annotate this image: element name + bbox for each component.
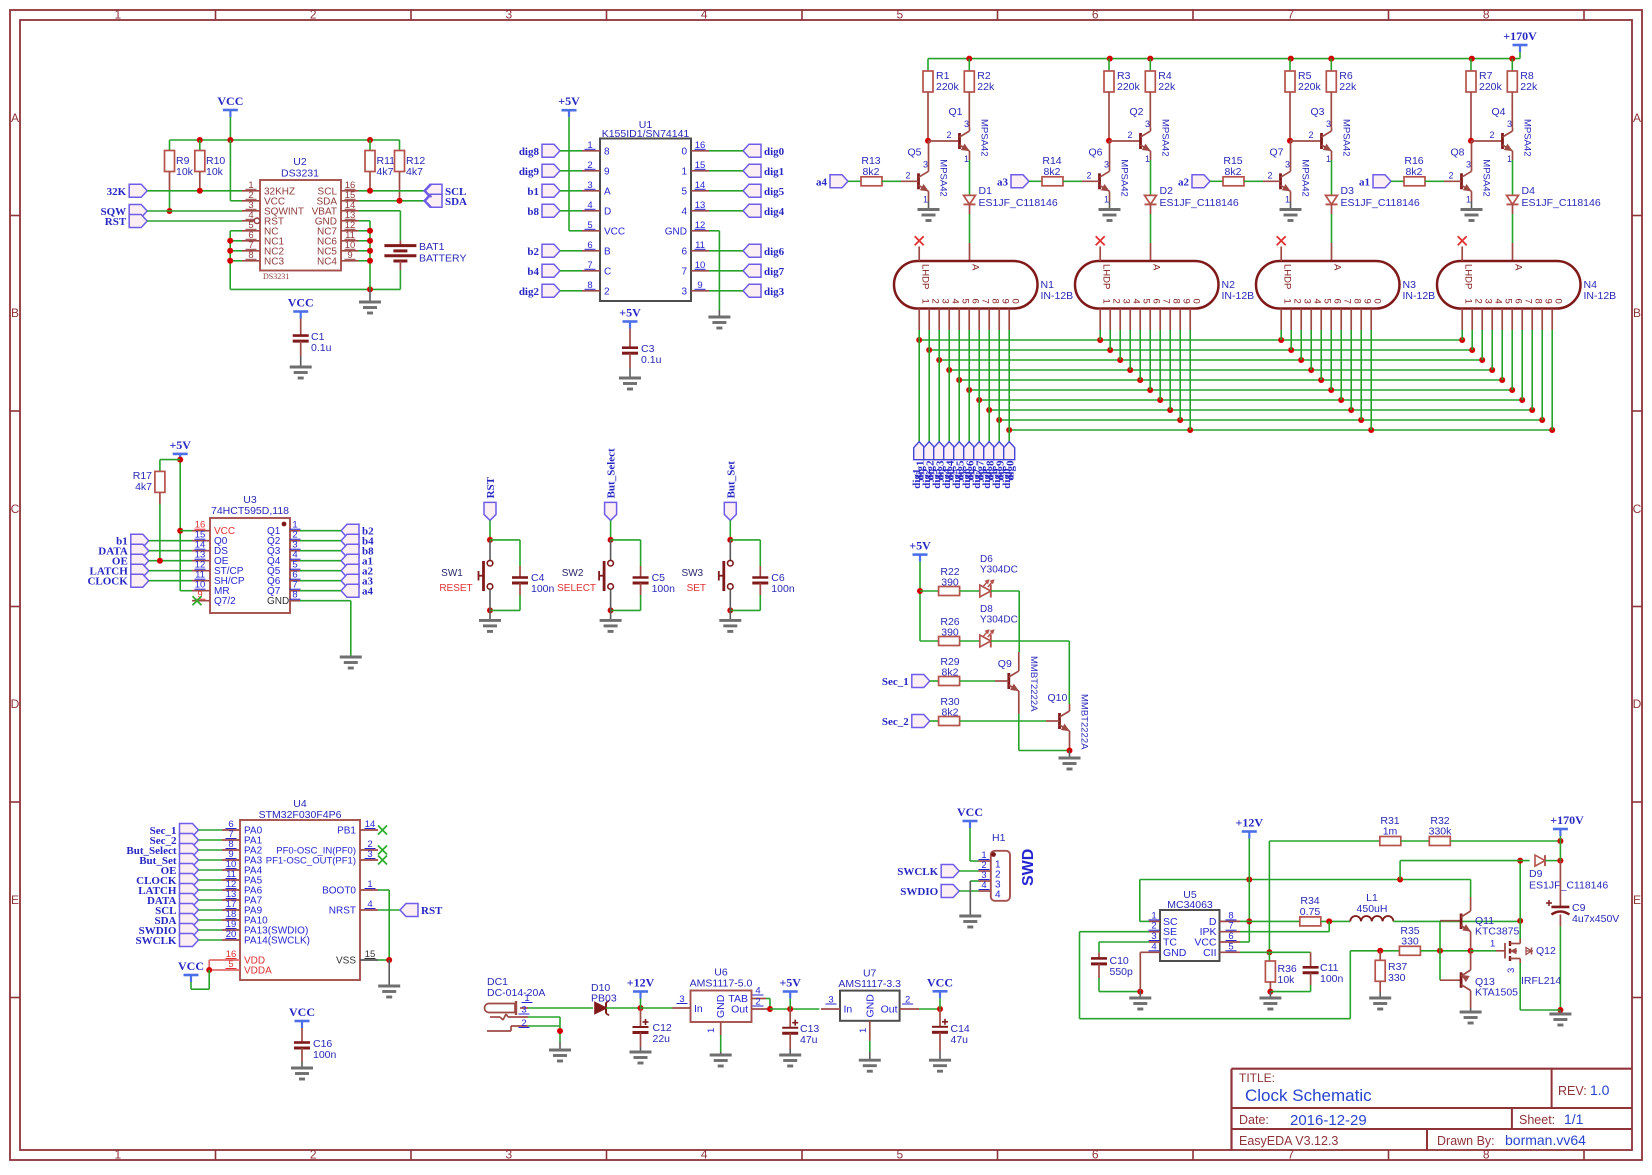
svg-text:6: 6	[681, 246, 687, 257]
svg-text:A: A	[1332, 264, 1343, 271]
svg-text:Q9: Q9	[998, 658, 1012, 670]
svg-text:+5V: +5V	[779, 976, 801, 990]
svg-text:Out: Out	[731, 1004, 748, 1016]
svg-text:A: A	[1151, 264, 1162, 271]
svg-text:4k7: 4k7	[135, 481, 152, 493]
svg-text:VCC: VCC	[604, 226, 625, 237]
svg-text:D8: D8	[980, 604, 993, 615]
svg-text:390: 390	[941, 577, 959, 589]
svg-text:dig7: dig7	[764, 266, 785, 278]
svg-text:a3: a3	[997, 176, 1009, 188]
svg-text:6: 6	[1513, 299, 1524, 304]
svg-text:VDDA: VDDA	[244, 966, 272, 977]
svg-text:0: 0	[1010, 299, 1021, 304]
svg-text:5: 5	[896, 1148, 903, 1162]
svg-text:MPSA42: MPSA42	[1481, 159, 1492, 197]
svg-text:47u: 47u	[800, 1034, 818, 1046]
svg-text:8: 8	[1171, 299, 1182, 304]
svg-text:9: 9	[1543, 299, 1554, 304]
svg-text:2: 2	[930, 299, 941, 304]
svg-text:32K: 32K	[107, 186, 127, 198]
svg-text:IN-12B: IN-12B	[1222, 290, 1255, 302]
svg-text:1: 1	[1285, 194, 1290, 204]
svg-text:BATTERY: BATTERY	[419, 253, 466, 265]
svg-text:3: 3	[1507, 119, 1512, 129]
svg-text:D4: D4	[1522, 185, 1536, 197]
svg-text:22u: 22u	[653, 1033, 671, 1045]
svg-text:8: 8	[604, 146, 610, 157]
svg-text:Q5: Q5	[908, 146, 922, 158]
svg-text:TITLE:: TITLE:	[1239, 1071, 1275, 1085]
svg-text:74HCT595D,118: 74HCT595D,118	[211, 505, 289, 517]
svg-text:1: 1	[706, 1028, 717, 1033]
svg-text:CLOCK: CLOCK	[87, 576, 128, 588]
svg-text:7: 7	[1342, 299, 1353, 304]
svg-text:Q3: Q3	[1311, 106, 1325, 118]
svg-text:VCC: VCC	[927, 975, 953, 989]
svg-text:7: 7	[681, 266, 687, 277]
svg-text:DS3231: DS3231	[263, 272, 289, 281]
svg-text:MPSA42: MPSA42	[1160, 119, 1171, 157]
svg-text:0.75: 0.75	[1300, 906, 1321, 918]
svg-text:SWCLK: SWCLK	[897, 866, 938, 878]
svg-text:1: 1	[1463, 299, 1474, 304]
svg-text:In: In	[694, 1003, 703, 1015]
svg-text:LHDP: LHDP	[920, 264, 931, 289]
svg-text:330k: 330k	[1429, 826, 1453, 838]
svg-text:0: 0	[1372, 299, 1383, 304]
svg-text:220k: 220k	[1479, 81, 1503, 93]
svg-text:1: 1	[964, 154, 969, 164]
svg-text:Q4: Q4	[1492, 106, 1506, 118]
svg-text:A: A	[11, 111, 19, 125]
svg-text:220k: 220k	[936, 81, 960, 93]
svg-text:3: 3	[1302, 299, 1313, 304]
svg-text:5: 5	[1322, 299, 1333, 304]
svg-text:C: C	[1633, 502, 1642, 516]
svg-text:NC4: NC4	[317, 256, 337, 267]
svg-text:D6: D6	[980, 554, 993, 565]
svg-text:A: A	[1633, 111, 1641, 125]
svg-text:6: 6	[1092, 8, 1099, 22]
svg-text:2: 2	[1128, 130, 1133, 140]
svg-text:7: 7	[980, 299, 991, 304]
svg-text:PA14(SWCLK): PA14(SWCLK)	[244, 936, 310, 947]
svg-text:6: 6	[1092, 1148, 1099, 1162]
svg-text:A: A	[970, 264, 981, 271]
svg-text:SWD: SWD	[1020, 849, 1037, 886]
svg-text:borman.vv64: borman.vv64	[1505, 1132, 1586, 1148]
svg-text:ES1JF_C118146: ES1JF_C118146	[979, 197, 1058, 209]
svg-text:NC3: NC3	[264, 256, 284, 267]
svg-text:RST: RST	[105, 216, 127, 228]
svg-text:0: 0	[1553, 299, 1564, 304]
svg-text:MMBT2222A: MMBT2222A	[1079, 694, 1090, 750]
svg-text:+5V: +5V	[909, 539, 931, 553]
svg-text:+5V: +5V	[558, 94, 580, 108]
svg-text:2: 2	[310, 1148, 317, 1162]
svg-text:1: 1	[1282, 299, 1293, 304]
svg-text:22k: 22k	[977, 81, 995, 93]
svg-text:ES1JF_C118146: ES1JF_C118146	[1522, 197, 1601, 209]
svg-text:MPSA42: MPSA42	[1341, 119, 1352, 157]
svg-text:U2: U2	[293, 156, 307, 168]
svg-text:2: 2	[1449, 170, 1454, 180]
svg-text:4: 4	[701, 8, 708, 22]
svg-text:8k2: 8k2	[1044, 166, 1061, 178]
svg-text:ES1JF_C118146: ES1JF_C118146	[1341, 197, 1420, 209]
svg-text:D: D	[1633, 697, 1642, 711]
svg-text:B: B	[11, 306, 19, 320]
svg-text:ES1JF_C118146: ES1JF_C118146	[1529, 880, 1608, 892]
svg-text:5: 5	[1141, 299, 1152, 304]
svg-text:+5V: +5V	[169, 438, 191, 452]
svg-text:1: 1	[923, 194, 928, 204]
svg-text:KTC3875: KTC3875	[1475, 926, 1520, 938]
svg-text:MC34063: MC34063	[1167, 899, 1213, 911]
svg-text:2: 2	[1490, 130, 1495, 140]
svg-text:8: 8	[990, 299, 1001, 304]
svg-text:22k: 22k	[1158, 81, 1176, 93]
svg-text:PB03: PB03	[591, 993, 617, 1005]
svg-text:3: 3	[1145, 119, 1150, 129]
svg-text:dig2: dig2	[519, 286, 540, 298]
svg-text:220k: 220k	[1117, 81, 1141, 93]
svg-text:GND: GND	[665, 226, 687, 237]
svg-text:10k: 10k	[206, 166, 224, 178]
svg-text:2: 2	[1473, 299, 1484, 304]
svg-text:b2: b2	[527, 246, 539, 258]
svg-text:Date:: Date:	[1239, 1113, 1269, 1127]
svg-text:PB1: PB1	[337, 826, 356, 837]
svg-text:5: 5	[1503, 299, 1514, 304]
svg-text:But_Set: But_Set	[725, 461, 737, 499]
svg-text:K155ID1/SN74141: K155ID1/SN74141	[602, 128, 690, 140]
svg-text:4: 4	[701, 1148, 708, 1162]
svg-text:3: 3	[1466, 159, 1471, 169]
svg-text:SW2: SW2	[562, 568, 584, 579]
svg-text:100n: 100n	[652, 583, 676, 595]
svg-text:C: C	[11, 502, 20, 516]
svg-text:GND: GND	[1163, 947, 1187, 959]
svg-text:220k: 220k	[1298, 81, 1322, 93]
svg-text:MPSA42: MPSA42	[979, 119, 990, 157]
svg-text:Q7/2: Q7/2	[214, 596, 236, 607]
svg-text:1: 1	[114, 1148, 121, 1162]
svg-text:1: 1	[1101, 299, 1112, 304]
svg-text:Sec_2: Sec_2	[882, 716, 909, 728]
svg-text:Y304DC: Y304DC	[980, 615, 1018, 626]
svg-text:1m: 1m	[1383, 826, 1398, 838]
svg-text:550p: 550p	[1110, 966, 1134, 978]
svg-text:3: 3	[1104, 159, 1109, 169]
svg-text:9: 9	[604, 166, 610, 177]
svg-text:SWDIO: SWDIO	[900, 886, 938, 898]
svg-text:B: B	[604, 246, 611, 257]
svg-text:MPSA42: MPSA42	[1119, 159, 1130, 197]
svg-text:Q1: Q1	[949, 106, 963, 118]
svg-text:2016-12-29: 2016-12-29	[1290, 1112, 1367, 1129]
svg-text:+170V: +170V	[1550, 813, 1584, 827]
svg-text:6: 6	[1151, 299, 1162, 304]
svg-text:H1: H1	[992, 832, 1006, 844]
svg-text:1: 1	[858, 1028, 869, 1033]
svg-text:Out: Out	[881, 1004, 898, 1016]
svg-text:IN-12B: IN-12B	[1403, 290, 1436, 302]
svg-text:VCC: VCC	[178, 959, 204, 973]
svg-text:D2: D2	[1160, 185, 1174, 197]
svg-text:But_Select: But_Select	[606, 448, 618, 498]
svg-text:1: 1	[681, 166, 687, 177]
svg-text:D: D	[604, 206, 611, 217]
svg-text:8: 8	[1483, 1148, 1490, 1162]
svg-text:MPSA42: MPSA42	[1522, 119, 1533, 157]
svg-text:10k: 10k	[176, 166, 194, 178]
svg-text:SW1: SW1	[441, 568, 463, 579]
svg-text:dig3: dig3	[764, 286, 785, 298]
svg-text:C: C	[604, 266, 611, 277]
svg-text:dig9: dig9	[519, 166, 540, 178]
svg-text:b1: b1	[527, 186, 539, 198]
svg-text:5: 5	[960, 299, 971, 304]
svg-text:D1: D1	[979, 185, 993, 197]
svg-text:8k2: 8k2	[1225, 166, 1242, 178]
svg-text:IRFL214: IRFL214	[1521, 975, 1561, 987]
svg-text:2: 2	[1111, 299, 1122, 304]
svg-text:In: In	[844, 1004, 853, 1016]
svg-text:8: 8	[1483, 8, 1490, 22]
svg-text:3: 3	[940, 299, 951, 304]
svg-text:AMS1117-5.0: AMS1117-5.0	[690, 978, 753, 990]
svg-text:KTA1505: KTA1505	[1475, 987, 1518, 999]
svg-text:E: E	[1633, 893, 1641, 907]
svg-text:2: 2	[947, 130, 952, 140]
svg-text:1: 1	[920, 299, 931, 304]
svg-text:2: 2	[604, 286, 610, 297]
svg-text:b4: b4	[527, 266, 539, 278]
svg-text:4: 4	[1493, 299, 1504, 304]
svg-text:a4: a4	[816, 176, 828, 188]
svg-text:Sec_1: Sec_1	[882, 676, 909, 688]
svg-text:3: 3	[505, 1148, 512, 1162]
svg-text:IN-12B: IN-12B	[1584, 290, 1617, 302]
svg-text:VCC: VCC	[289, 1005, 315, 1019]
svg-text:6: 6	[1332, 299, 1343, 304]
svg-text:a4: a4	[362, 586, 374, 598]
svg-text:330: 330	[1388, 972, 1406, 984]
svg-text:SELECT: SELECT	[557, 583, 596, 594]
svg-text:100n: 100n	[313, 1049, 337, 1061]
svg-text:AMS1117-3.3: AMS1117-3.3	[838, 978, 901, 990]
svg-text:Q10: Q10	[1048, 692, 1068, 704]
svg-text:3: 3	[505, 8, 512, 22]
svg-text:2: 2	[1087, 170, 1092, 180]
svg-text:SWCLK: SWCLK	[136, 935, 177, 947]
svg-text:1: 1	[114, 8, 121, 22]
svg-text:EasyEDA V3.12.3: EasyEDA V3.12.3	[1239, 1134, 1338, 1148]
svg-text:+12V: +12V	[1236, 816, 1264, 830]
svg-text:SW3: SW3	[681, 568, 703, 579]
svg-text:2: 2	[906, 170, 911, 180]
svg-text:4: 4	[681, 206, 687, 217]
svg-text:3: 3	[1326, 119, 1331, 129]
svg-text:+170V: +170V	[1503, 29, 1537, 43]
svg-text:SET: SET	[687, 583, 706, 594]
svg-text:A: A	[1513, 264, 1524, 271]
svg-text:10k: 10k	[1278, 974, 1296, 986]
svg-text:47u: 47u	[951, 1034, 969, 1046]
svg-text:5: 5	[896, 8, 903, 22]
svg-text:RST: RST	[421, 905, 443, 917]
svg-text:0: 0	[1191, 299, 1202, 304]
svg-text:1: 1	[1490, 939, 1495, 950]
svg-text:0.1u: 0.1u	[641, 354, 662, 366]
svg-text:0: 0	[681, 146, 687, 157]
svg-text:VSS: VSS	[336, 956, 356, 967]
svg-text:PF1-OSC_OUT(PF1): PF1-OSC_OUT(PF1)	[266, 856, 356, 867]
svg-text:7: 7	[1287, 8, 1294, 22]
svg-text:REV:: REV:	[1558, 1084, 1587, 1098]
svg-text:Q6: Q6	[1089, 146, 1103, 158]
svg-text:3: 3	[1285, 159, 1290, 169]
svg-text:2: 2	[1292, 299, 1303, 304]
svg-text:22k: 22k	[1520, 81, 1538, 93]
svg-text:dig8: dig8	[519, 146, 540, 158]
svg-text:Q2: Q2	[1130, 106, 1144, 118]
svg-text:SDA: SDA	[445, 196, 467, 208]
svg-text:Q12: Q12	[1536, 945, 1556, 957]
svg-text:9: 9	[1000, 299, 1011, 304]
svg-text:100n: 100n	[531, 583, 555, 595]
svg-text:Drawn By:: Drawn By:	[1437, 1134, 1495, 1148]
svg-text:100n: 100n	[771, 583, 795, 595]
svg-text:3: 3	[923, 159, 928, 169]
svg-text:+12V: +12V	[627, 976, 655, 990]
svg-text:A: A	[604, 186, 611, 197]
svg-text:8k2: 8k2	[942, 667, 959, 679]
svg-text:3: 3	[1506, 968, 1517, 973]
svg-text:VCC: VCC	[288, 296, 314, 310]
svg-text:9: 9	[1362, 299, 1373, 304]
svg-text:330: 330	[1401, 936, 1419, 948]
svg-text:dig6: dig6	[764, 246, 785, 258]
svg-text:dig0: dig0	[764, 146, 785, 158]
svg-text:4: 4	[995, 890, 1001, 901]
svg-text:GND: GND	[267, 596, 289, 607]
svg-text:+5V: +5V	[619, 306, 641, 320]
svg-text:1.0: 1.0	[1590, 1082, 1610, 1098]
svg-text:STM32F030F4P6: STM32F030F4P6	[259, 809, 342, 821]
svg-text:DS3231: DS3231	[281, 168, 319, 180]
svg-text:D9: D9	[1529, 868, 1543, 880]
svg-text:4k7: 4k7	[406, 166, 423, 178]
svg-text:BAT1: BAT1	[419, 241, 445, 253]
svg-text:4: 4	[1131, 299, 1142, 304]
svg-text:2: 2	[1268, 170, 1273, 180]
svg-text:NRST: NRST	[329, 906, 356, 917]
svg-text:b8: b8	[527, 206, 539, 218]
svg-text:3: 3	[964, 119, 969, 129]
svg-text:Clock Schematic: Clock Schematic	[1245, 1086, 1372, 1105]
svg-text:D: D	[11, 697, 20, 711]
svg-text:GND: GND	[865, 994, 877, 1018]
svg-text:4k7: 4k7	[377, 166, 394, 178]
svg-text:4: 4	[950, 299, 961, 304]
svg-text:1/1: 1/1	[1564, 1111, 1584, 1127]
svg-text:6: 6	[970, 299, 981, 304]
svg-text:0.1u: 0.1u	[311, 342, 332, 354]
svg-text:MPSA42: MPSA42	[1300, 159, 1311, 197]
svg-text:CII: CII	[1203, 947, 1216, 959]
svg-text:Q7: Q7	[1270, 146, 1284, 158]
svg-text:a1: a1	[1359, 176, 1370, 188]
svg-text:5: 5	[681, 186, 687, 197]
svg-text:E: E	[11, 893, 19, 907]
svg-text:7: 7	[1161, 299, 1172, 304]
svg-text:VCC: VCC	[957, 805, 983, 819]
svg-text:LHDP: LHDP	[1463, 264, 1474, 289]
svg-text:LHDP: LHDP	[1282, 264, 1293, 289]
svg-text:Y304DC: Y304DC	[980, 565, 1018, 576]
svg-text:450uH: 450uH	[1357, 903, 1388, 915]
svg-text:8k2: 8k2	[942, 707, 959, 719]
svg-text:22k: 22k	[1339, 81, 1357, 93]
svg-text:1: 1	[1104, 194, 1109, 204]
svg-text:9: 9	[1181, 299, 1192, 304]
svg-text:8: 8	[1352, 299, 1363, 304]
svg-text:Q8: Q8	[1451, 146, 1465, 158]
svg-text:1: 1	[1145, 154, 1150, 164]
svg-text:1: 1	[1326, 154, 1331, 164]
svg-text:IN-12B: IN-12B	[1041, 290, 1074, 302]
svg-text:3: 3	[1121, 299, 1132, 304]
svg-text:8k2: 8k2	[1406, 166, 1423, 178]
svg-text:GND: GND	[715, 994, 727, 1018]
svg-text:1: 1	[1507, 154, 1512, 164]
svg-text:100n: 100n	[1320, 973, 1344, 985]
svg-text:8: 8	[1533, 299, 1544, 304]
svg-text:4: 4	[1312, 299, 1323, 304]
svg-text:BOOT0: BOOT0	[322, 886, 356, 897]
svg-text:3: 3	[1483, 299, 1494, 304]
svg-text:VCC: VCC	[217, 94, 243, 108]
svg-text:2: 2	[1309, 130, 1314, 140]
svg-text:7: 7	[1287, 1148, 1294, 1162]
svg-text:8k2: 8k2	[863, 166, 880, 178]
svg-text:1: 1	[1466, 194, 1471, 204]
svg-text:7: 7	[1523, 299, 1534, 304]
svg-text:390: 390	[941, 627, 959, 639]
svg-text:D3: D3	[1341, 185, 1355, 197]
svg-text:LHDP: LHDP	[1101, 264, 1112, 289]
svg-text:RST: RST	[485, 476, 497, 498]
svg-text:4u7x450V: 4u7x450V	[1572, 913, 1619, 925]
svg-text:dig4: dig4	[764, 206, 785, 218]
svg-text:DC-014-20A: DC-014-20A	[487, 987, 545, 999]
svg-text:ES1JF_C118146: ES1JF_C118146	[1160, 197, 1239, 209]
svg-text:a2: a2	[1178, 176, 1190, 188]
svg-text:RESET: RESET	[439, 583, 472, 594]
svg-text:MPSA42: MPSA42	[938, 159, 949, 197]
svg-text:dig0: dig0	[1001, 468, 1013, 489]
svg-text:MMBT2222A: MMBT2222A	[1028, 656, 1039, 712]
svg-text:Sheet:: Sheet:	[1519, 1113, 1555, 1127]
svg-text:3: 3	[681, 286, 687, 297]
svg-text:dig1: dig1	[764, 166, 784, 178]
svg-text:B: B	[1633, 306, 1641, 320]
svg-text:dig5: dig5	[764, 186, 785, 198]
svg-text:2: 2	[310, 8, 317, 22]
